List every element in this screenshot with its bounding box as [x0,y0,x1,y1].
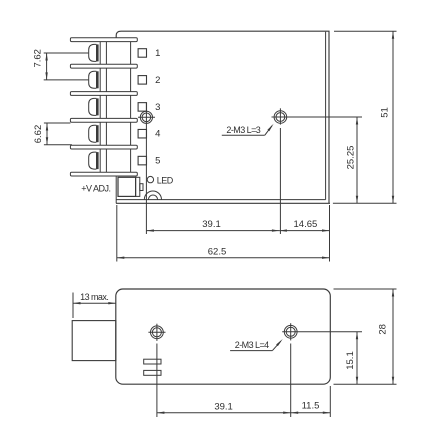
extension line from right hole (bottom view) [290,344,292,418]
dimension 6.62 [33,123,72,145]
top view case outline [116,31,330,203]
vent slot 2 [144,370,161,375]
mounting hole left (bottom view) [148,324,165,341]
svg-text:15.1: 15.1 [345,351,356,370]
dimension 39.1 (top view) [146,219,279,232]
extension line from right hole [279,108,281,234]
dimension 51 [379,31,394,203]
label LED [157,175,174,185]
svg-text:7.62: 7.62 [33,49,44,68]
LED indicator [147,176,153,182]
pin label 2 [155,75,160,86]
terminal screw 4 [89,122,131,145]
svg-text:28: 28 [378,324,389,335]
bottom view case outline [116,289,330,384]
svg-text:39.1: 39.1 [202,219,221,230]
pin label 3 [155,102,160,113]
vent slot 1 [144,359,161,364]
extension lines for 51 [333,31,397,203]
svg-text:51: 51 [379,107,390,118]
pin label 5 [155,156,160,167]
mounting hole right (bottom view) [284,323,297,340]
pin square 4 [138,129,146,138]
cutout arc on bottom edge [144,191,161,200]
svg-text:LED: LED [157,175,174,185]
pin square 3 [138,103,146,112]
svg-text:25.25: 25.25 [346,146,357,170]
extension lines for 28 [334,289,397,384]
svg-text:11.5: 11.5 [302,401,320,412]
svg-text:3: 3 [155,102,160,113]
svg-text:14.65: 14.65 [294,219,318,230]
extension line from left hole (bottom view) [156,344,158,418]
svg-text:2-M3 L=4: 2-M3 L=4 [235,340,269,350]
mounting hole right (top view) [274,111,287,124]
label 2-M3 L=4 with leader [230,339,283,351]
dimension 15.1 [345,332,358,384]
label +V ADJ. [81,184,110,194]
svg-text:6.62: 6.62 [33,125,44,144]
dimension 39.1 (bottom view) [157,401,291,414]
pin square 2 [138,76,146,85]
dimension 25.25 [346,117,359,203]
centerline from right hole (bottom view) [282,331,362,333]
pin square 5 [138,156,146,165]
extension line right edge (bottom view) [329,386,331,417]
terminal screw 1 [89,42,131,65]
terminal screw 2 [89,68,131,92]
label 2-M3 L=3 with leader [222,124,274,135]
dimension 11.5 [291,401,331,414]
svg-text:+V ADJ.: +V ADJ. [81,184,110,194]
dimension 14.65 [279,219,329,232]
terminal block plates [70,38,137,176]
dimension 28 [378,289,395,384]
svg-text:39.1: 39.1 [214,401,233,412]
pin label 4 [155,129,160,140]
extension lines for 62.5 [117,205,330,262]
svg-text:1: 1 [155,48,160,59]
centerline from right hole [272,116,363,118]
terminal screw 5 [89,149,131,172]
svg-text:4: 4 [155,129,160,140]
svg-text:13 max.: 13 max. [80,292,108,302]
dimension 13 max. [73,292,116,318]
potentiometer +V ADJ. [118,177,143,196]
pin square 1 [138,49,146,58]
svg-text:2-M3 L=3: 2-M3 L=3 [226,125,260,135]
pin label 1 [155,48,160,59]
mounting hole left (top view) [138,111,155,123]
svg-text:2: 2 [155,75,160,86]
svg-text:5: 5 [155,156,160,167]
dimension 7.62 [33,49,89,80]
terminal screw 3 [89,95,131,118]
input connector block [72,321,116,361]
dimension 62.5 [117,247,330,259]
extension line from left hole [145,103,147,234]
svg-text:62.5: 62.5 [208,247,227,258]
